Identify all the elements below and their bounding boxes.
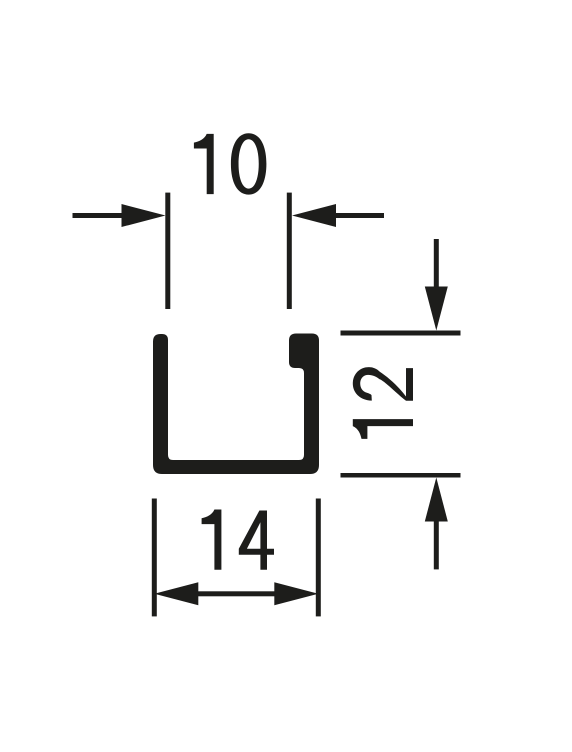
dimension 10: right extension line xyxy=(287,193,292,309)
U-channel profile cross-section xyxy=(153,334,319,475)
dimension 10: left arrow xyxy=(73,204,166,227)
dimension 14: right extension line xyxy=(316,499,321,617)
dimension 12: down arrow xyxy=(425,239,448,331)
dimension 12: label "12" rotated xyxy=(353,367,413,439)
dimension 10: right arrow xyxy=(292,204,384,227)
dimension 12: bottom extension line xyxy=(341,473,461,478)
dimension 14: double arrow xyxy=(154,582,318,605)
dimension 14: left extension line xyxy=(152,499,157,617)
dimension 12: up arrow xyxy=(425,478,448,570)
dimension 10: left extension line xyxy=(165,193,170,309)
dimension 10: label "10" xyxy=(194,133,267,194)
dimension 14: label "14" xyxy=(202,510,274,570)
dimension 12: top extension line xyxy=(341,331,461,336)
